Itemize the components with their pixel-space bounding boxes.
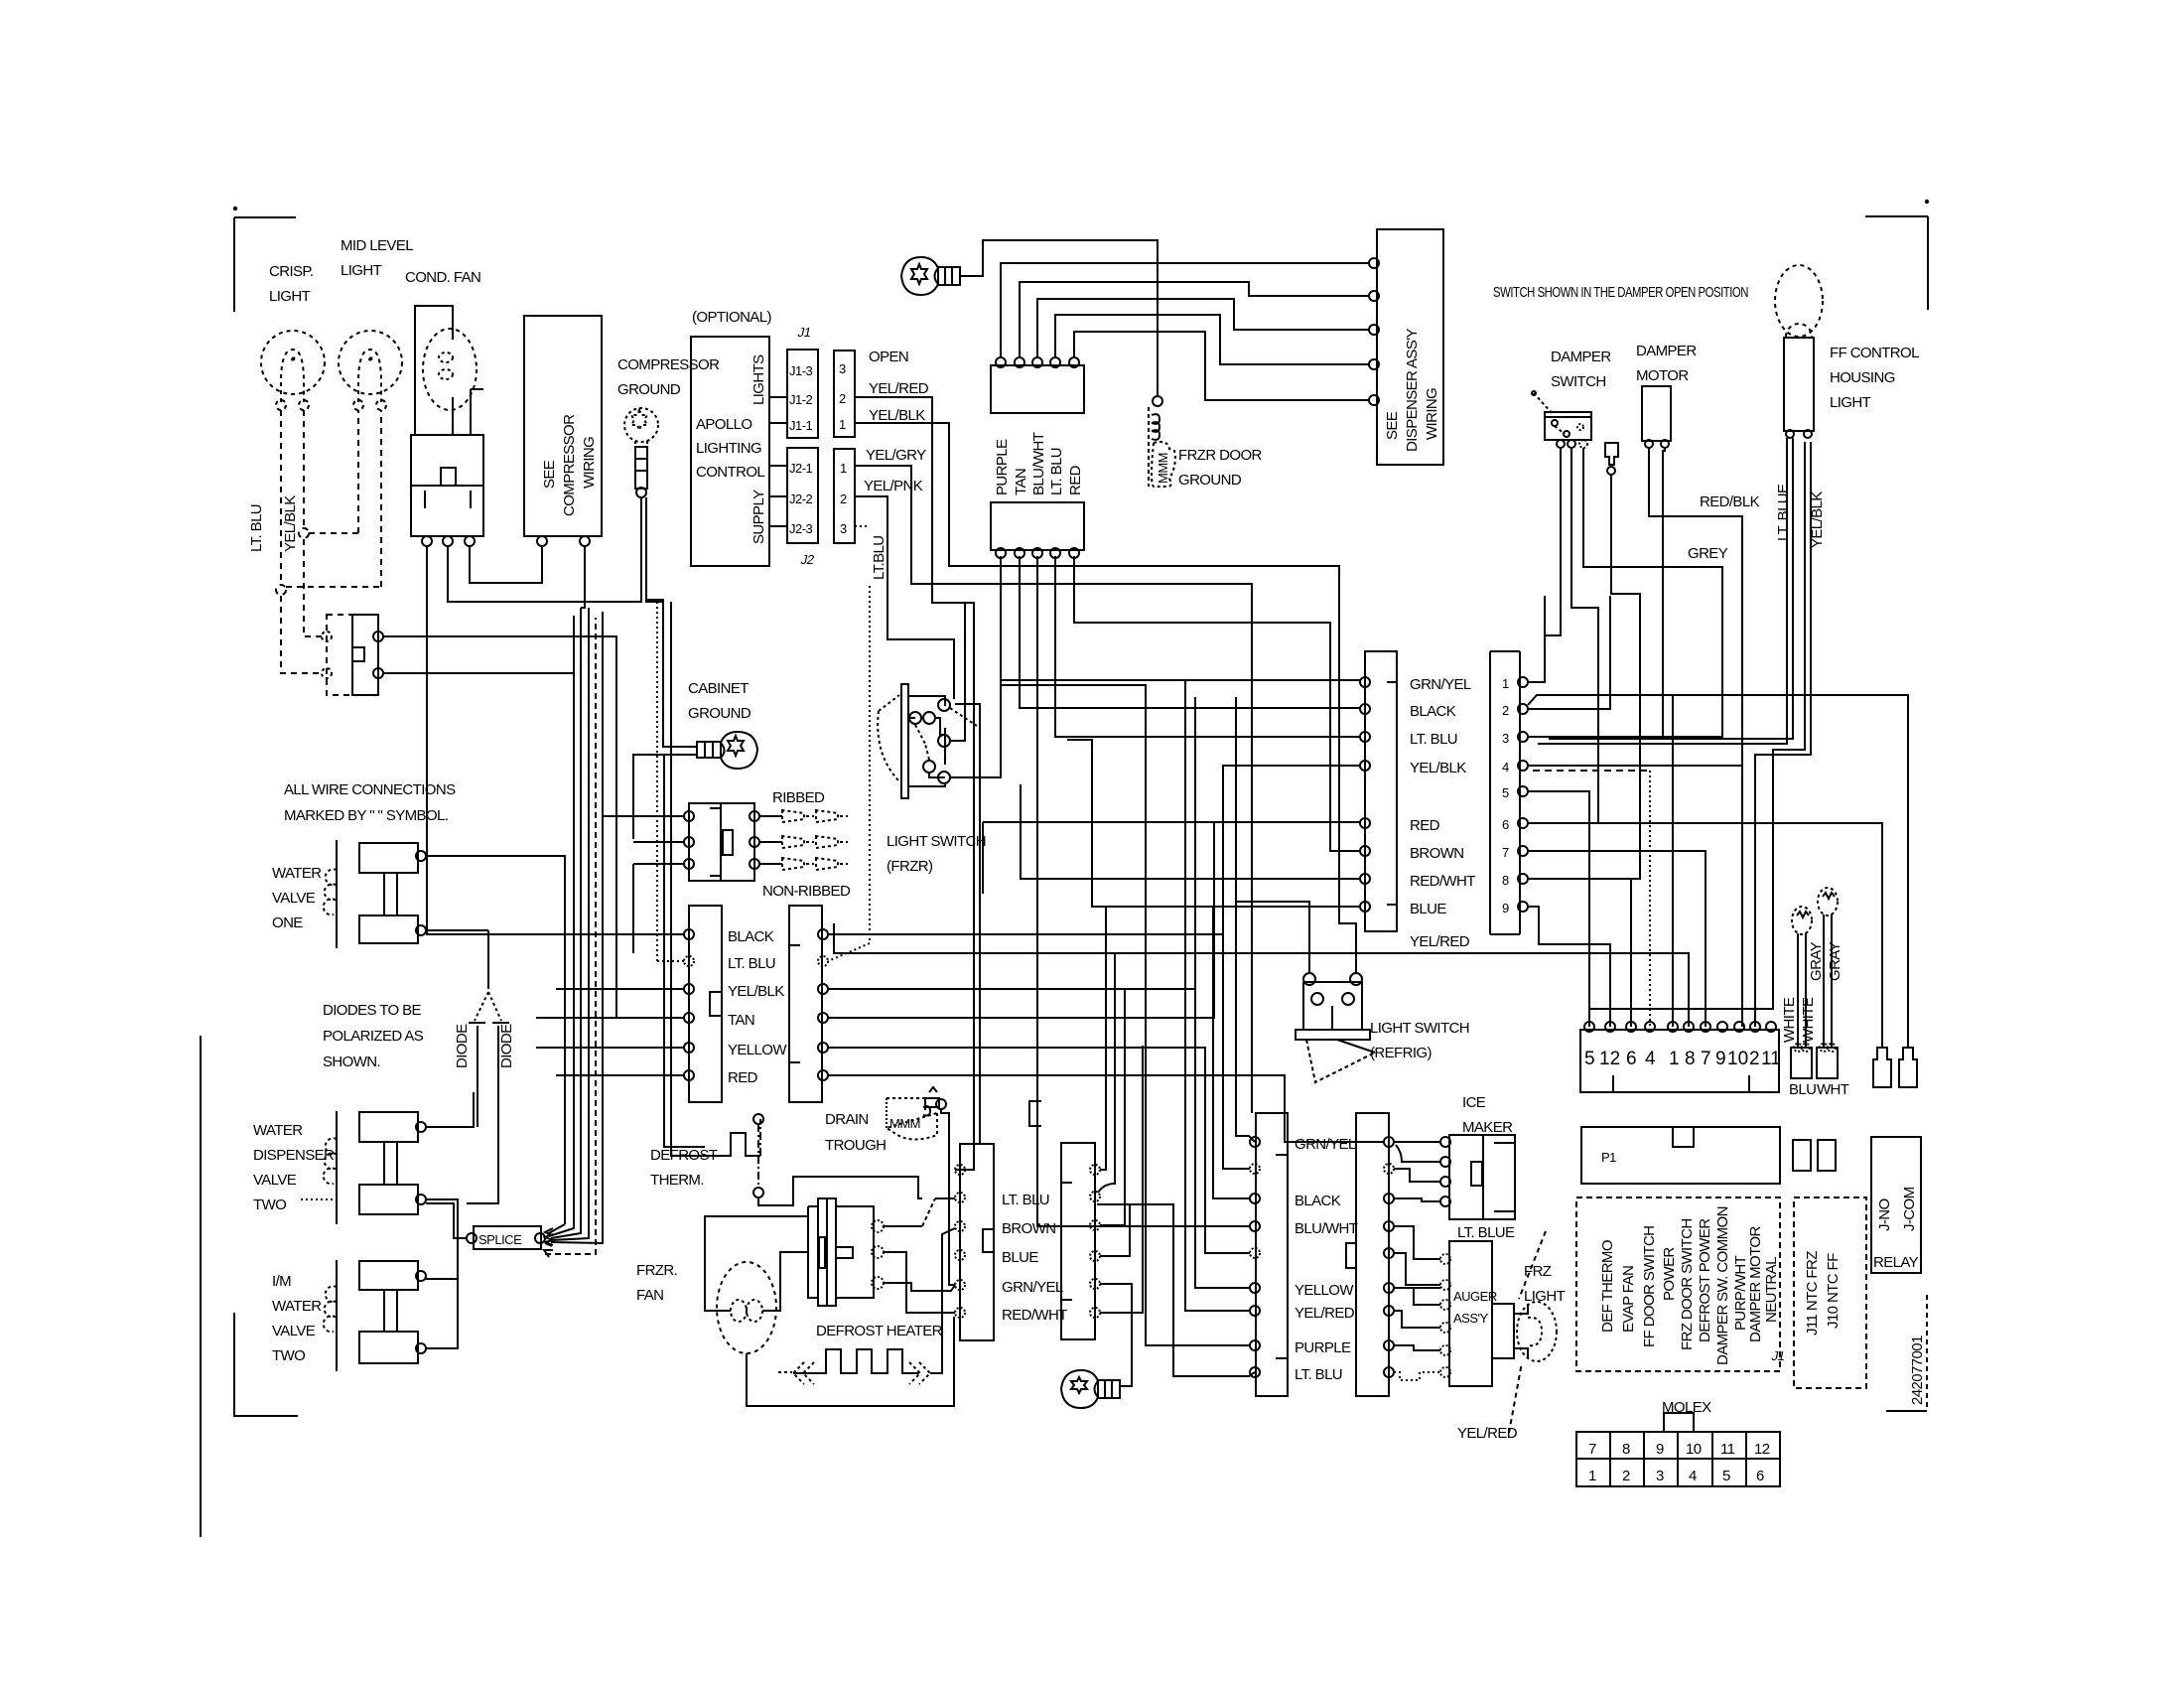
J1 mating connector 3 2 1 [834,351,855,437]
wire apollo to J2 [769,466,787,526]
svg-text:YEL/BLK: YEL/BLK [869,407,925,424]
svg-text:MMM: MMM [1156,453,1170,484]
svg-text:8: 8 [1622,1441,1630,1458]
svg-text:RED: RED [1067,465,1084,495]
thermistor white/white [1791,907,1812,1078]
wire 5pin red to brown [1074,556,1360,851]
wire dispenser 2 [1020,282,1369,357]
svg-text:DAMPER: DAMPER [1636,343,1697,359]
mid level light label [341,237,413,279]
svg-text:3: 3 [839,361,846,376]
J2 connector [787,448,818,543]
svg-text:CONTROL: CONTROL [696,464,764,481]
auger assy box [1440,1241,1497,1386]
9 pin connector strip [1490,651,1528,934]
ice maker label [1462,1094,1513,1136]
svg-text:MID LEVEL: MID LEVEL [341,237,413,254]
svg-text:J1-1: J1-1 [789,418,813,433]
wire 9pin 9 [1528,907,1610,1027]
I/M water valve two label [272,1273,322,1364]
damper switch [1532,391,1591,448]
svg-text:FAN: FAN [636,1287,663,1304]
svg-text:5: 5 [1584,1049,1595,1069]
svg-text:9: 9 [1502,901,1509,915]
svg-text:BLACK: BLACK [1295,1193,1341,1209]
svg-text:DEFROST POWER: DEFROST POWER [1697,1218,1713,1342]
light relay box [322,615,383,695]
svg-text:2: 2 [840,492,847,506]
svg-text:TAN: TAN [728,1012,754,1029]
svg-text:3: 3 [840,521,847,536]
svg-text:ONE: ONE [272,914,303,931]
svg-text:DAMPER SW. COMMON: DAMPER SW. COMMON [1714,1206,1731,1365]
ground lug bottom middle [1061,1370,1120,1408]
svg-text:OPEN: OPEN [869,349,908,365]
svg-text:DRAIN: DRAIN [825,1111,869,1128]
svg-text:LIGHTING: LIGHTING [696,440,761,457]
svg-text:(REFRIG): (REFRIG) [1370,1045,1432,1061]
svg-text:YEL/BLK: YEL/BLK [1410,760,1466,776]
svg-text:BROWN: BROWN [1410,845,1464,862]
wire J2-3 dotted lt.blu [855,525,870,527]
svg-text:LIGHT SWITCH: LIGHT SWITCH [1370,1020,1469,1037]
wire 5pin blu/wht down to bottom connector [1037,556,1250,1226]
svg-text:J1-2: J1-2 [789,392,813,407]
svg-text:HOUSING: HOUSING [1830,369,1895,386]
defrost therm label [650,1147,718,1189]
wire blue row [1092,864,1360,907]
svg-text:5: 5 [1722,1468,1730,1484]
frzr fan label [636,1262,677,1304]
svg-text:GRAY: GRAY [1827,941,1843,981]
damper switch label [1551,349,1611,390]
svg-text:ICE: ICE [1462,1094,1486,1111]
svg-text:1: 1 [1502,676,1509,691]
svg-text:DAMPER MOTOR: DAMPER MOTOR [1747,1226,1764,1342]
svg-text:DAMPER: DAMPER [1551,349,1611,365]
svg-text:COMPRESSOR: COMPRESSOR [617,356,720,373]
frz light label [1524,1263,1566,1305]
svg-text:LT. BLU: LT. BLU [1295,1366,1342,1383]
wire dispenser 5 [1074,332,1369,400]
wire 9pin 3 [1528,596,1663,737]
ff control housing light label [1830,345,1919,411]
svg-text:YEL/RED: YEL/RED [1410,933,1470,950]
svg-text:2: 2 [1502,703,1509,718]
left connector strip pair: left strip [684,906,722,1102]
svg-text:BLUE: BLUE [1410,901,1446,917]
wire yel/gry from J2 [855,466,1252,1113]
wire water valve one upper [426,856,565,1224]
light switch FRZR [878,684,977,798]
wire frzr fan left over top [705,1216,808,1311]
svg-text:APOLLO: APOLLO [696,416,751,433]
wire light switch pin2 up [950,602,965,741]
wire LT. BLU dashed from crisp light [276,410,381,673]
damper motor label [1636,343,1697,384]
svg-text:7: 7 [1588,1441,1596,1458]
svg-text:J2-2: J2-2 [789,492,813,506]
wire 9pin 4b dashed [1533,770,1650,772]
svg-text:COND. FAN: COND. FAN [405,269,480,286]
light switch refrig [1296,973,1375,1082]
mid level light bulb [339,331,402,410]
svg-text:4: 4 [1645,1049,1656,1069]
molex connector table [1576,1413,1780,1486]
svg-text:3: 3 [1656,1468,1664,1484]
labels blu wht [1789,1081,1849,1098]
J2 mating connector 1 2 3 [834,449,855,543]
wire right strip pin5 [828,1048,1250,1253]
dotted lt.blu joins right strip [828,586,870,961]
ice maker box [1440,1135,1515,1219]
wire y745 secondary [1067,740,1092,864]
dispenser connector lower [991,502,1084,558]
wire nuts right of ribbed connector [759,810,848,870]
wire right strip pin3 [828,988,1195,990]
border corner mark top-right [1865,201,1928,310]
svg-text:6: 6 [1756,1468,1764,1484]
svg-text:GROUND: GROUND [617,381,681,398]
wire damper motor T2 to 9pin3 [1528,448,1665,737]
wire into ribbed pin2 [633,841,684,843]
ff control housing light [1775,265,1823,438]
svg-text:WATER: WATER [272,1298,322,1315]
bottom left tall connector [1250,1113,1288,1396]
wire yel/red long [1271,953,1689,1027]
wire dispenser valve lower to IM valve [426,1199,458,1348]
svg-text:GREY: GREY [1688,545,1728,562]
svg-text:BLU/WHT: BLU/WHT [1295,1220,1358,1237]
defrost heater element [778,1228,955,1384]
svg-text:LIGHT: LIGHT [341,262,382,279]
svg-text:YEL/GRY: YEL/GRY [866,447,926,464]
svg-text:J10 NTC FF: J10 NTC FF [1825,1253,1842,1329]
wire damper motor RED/BLK to 9pin4 [1533,448,1742,1027]
svg-text:RELAY: RELAY [1873,1254,1919,1271]
svg-text:7: 7 [1701,1049,1711,1069]
svg-text:GROUND: GROUND [1178,472,1242,489]
wire YEL/BLK dashed from crisp light [299,410,358,636]
svg-text:7: 7 [1502,845,1509,860]
wire water valve one lower to diode [426,929,488,931]
svg-text:1: 1 [1588,1468,1596,1484]
svg-text:GROUND: GROUND [688,705,751,722]
svg-text:SEE: SEE [541,460,558,489]
labels gray gray [1808,941,1843,981]
wire 9pin7 up-left [1528,850,1631,852]
svg-text:WATER: WATER [253,1122,303,1139]
svg-text:LT. BLU: LT. BLU [248,504,265,552]
svg-text:MOTOR: MOTOR [1636,367,1689,384]
crisp light label [269,263,313,305]
bracket mark [1029,1101,1041,1126]
svg-text:BLU: BLU [1789,1081,1816,1098]
svg-text:RED/WHT: RED/WHT [1410,873,1475,890]
cond fan motor [415,306,483,435]
wire yel/blk from J1 [855,423,1356,973]
svg-text:LT. BLU: LT. BLU [1048,448,1065,495]
svg-text:5: 5 [1502,785,1509,800]
wire drain trough down to grn/yel [941,1109,955,1285]
P1 box [1581,1127,1780,1184]
wire frzr fan right to motor box [762,1252,808,1311]
svg-text:10: 10 [1727,1049,1748,1069]
svg-text:NON-RIBBED: NON-RIBBED [762,883,851,900]
wire from top lug to frzr door ground [960,240,1158,395]
svg-text:LIGHT SWITCH: LIGHT SWITCH [887,833,986,850]
svg-text:2: 2 [1749,1049,1760,1069]
border left edge line [200,1036,202,1537]
wire yel/pnk from J2 [855,496,954,699]
svg-text:LIGHTS: LIGHTS [751,354,767,405]
svg-text:1: 1 [840,461,847,476]
svg-text:SWITCH SHOWN IN THE DAMPER OPE: SWITCH SHOWN IN THE DAMPER OPEN POSITION [1493,284,1748,301]
labels lt.blu brown blue grn/yel red/wht [1002,1192,1067,1324]
svg-text:8: 8 [1685,1049,1696,1069]
note text all wire connections [284,781,456,824]
relay box [1871,1137,1921,1273]
wire right strip pin1 to yel/blk [828,766,1360,1169]
svg-text:DISPENSER ASS'Y: DISPENSER ASS'Y [1404,328,1421,452]
wire 9pin 1 [1528,596,1545,682]
ground lug top (lead to frzr door ground) [901,257,960,295]
svg-text:(FRZR): (FRZR) [887,858,933,875]
wire right strip pin4 [828,822,1214,1018]
svg-text:DISPENSER: DISPENSER [253,1147,335,1164]
svg-text:RIBBED: RIBBED [772,789,825,806]
svg-text:FRZR.: FRZR. [636,1262,677,1279]
svg-text:RED: RED [728,1069,758,1086]
svg-text:NEUTRAL: NEUTRAL [1763,1257,1780,1323]
svg-text:FF DOOR SWITCH: FF DOOR SWITCH [1641,1226,1658,1347]
svg-text:YEL/RED: YEL/RED [1457,1425,1518,1442]
svg-text:SPLICE: SPLICE [478,1232,522,1247]
svg-text:BLU/WHT: BLU/WHT [1030,432,1047,495]
svg-text:CABINET: CABINET [688,680,749,697]
svg-text:COMPRESSOR: COMPRESSOR [561,414,578,516]
wire cabinet ground [645,600,697,747]
svg-text:CRISP.: CRISP. [269,263,313,280]
crisp light bulb [261,331,325,410]
wire damper switch GREY to 9pin3 [1533,448,1722,737]
svg-text:9: 9 [1656,1441,1664,1458]
svg-text:LT. BLU: LT. BLU [728,955,775,972]
svg-text:10: 10 [1686,1441,1702,1458]
wires middle connector to auger [1394,1226,1440,1259]
svg-text:WHITE: WHITE [1800,997,1817,1043]
svg-text:J1-3: J1-3 [789,363,813,378]
compressor ground label [617,356,720,398]
svg-text:YEL/BLK: YEL/BLK [728,983,784,1000]
bundle verticals to bottom connector [1236,697,1255,1142]
defrost therm wire to motor [758,1177,922,1205]
wire into ribbed pin1 [615,815,684,817]
svg-text:I/M: I/M [272,1273,291,1290]
svg-text:GRN/YEL: GRN/YEL [1410,676,1471,693]
wire 9pin 8 [1528,879,1631,1027]
plug j-com [1899,1048,1917,1087]
center connector strip grn/yel..blue [1360,651,1397,931]
wire ff light LT.BLUE down [1538,438,1787,744]
wire damper switch pin2 down [1533,448,1598,823]
svg-text:TAN: TAN [1013,469,1029,495]
wire fan T3 to compressor box [470,546,542,583]
svg-text:WIRING: WIRING [1424,388,1440,440]
frz light bulb [1492,1231,1557,1433]
wire motor T2 [884,1252,955,1313]
wire relay top to tan [383,636,684,1018]
svg-text:(OPTIONAL): (OPTIONAL) [692,309,771,326]
svg-text:GRN/YEL: GRN/YEL [1295,1136,1356,1153]
wire into ribbed pin3 [633,864,684,953]
wires into left strip [556,933,684,935]
drain trough label [825,1111,886,1154]
svg-text:VALVE: VALVE [272,1323,316,1339]
label light switch refrig [1370,1020,1469,1061]
svg-text:WHITE: WHITE [1781,997,1798,1043]
wire motor T3 [884,1283,955,1291]
svg-text:EVAP FAN: EVAP FAN [1620,1266,1637,1333]
svg-text:BROWN: BROWN [1002,1220,1056,1237]
svg-text:4: 4 [1502,760,1509,774]
svg-text:P1: P1 [1601,1150,1616,1165]
svg-text:AUGER: AUGER [1453,1289,1497,1304]
svg-text:BLACK: BLACK [728,928,774,945]
svg-text:6: 6 [1626,1049,1637,1069]
svg-text:FRZ DOOR SWITCH: FRZ DOOR SWITCH [1679,1218,1696,1350]
svg-text:2: 2 [1622,1468,1630,1484]
svg-text:J11 NTC FRZ: J11 NTC FRZ [1804,1251,1821,1336]
labels grn/yel black blu/wht yellow yel/red purple lt. blu [1295,1136,1358,1383]
wire x987 vertical [955,704,980,1144]
left connector strip pair: right strip [789,906,828,1102]
svg-text:12: 12 [1754,1441,1770,1458]
svg-text:12: 12 [1599,1049,1620,1069]
svg-text:J-NO: J-NO [1876,1198,1893,1231]
svg-text:LT.BLU: LT.BLU [871,536,887,580]
svg-text:FRZR DOOR: FRZR DOOR [1178,447,1263,464]
wire damper switch pin1 down to 9pin1 [1528,448,1561,682]
svg-text:YEL/RED: YEL/RED [1295,1305,1355,1322]
svg-text:ALL WIRE CONNECTIONS: ALL WIRE CONNECTIONS [284,781,456,798]
labels white white [1781,997,1817,1043]
svg-text:11: 11 [1761,1049,1781,1069]
wire 5pin tan to black [1020,556,1360,708]
cabinet ground label [688,680,751,722]
svg-text:YEL/RED: YEL/RED [869,380,929,397]
cond fan connector [411,435,483,546]
bottom mid connector right strip [1061,1143,1100,1339]
svg-text:6: 6 [1502,817,1509,832]
wires right strip up into bundle [1100,907,1106,1170]
damper plug [1605,443,1618,475]
water dispenser valve two [301,1111,426,1224]
svg-text:4: 4 [1689,1468,1697,1484]
thermistor gray/gray [1817,888,1838,1078]
splice box [467,1226,545,1249]
svg-text:RED/BLK: RED/BLK [1700,493,1760,510]
wire apollo to J1 [769,397,787,423]
svg-text:YELLOW: YELLOW [728,1042,787,1058]
label frzr door ground [1178,447,1263,489]
svg-text:DIODE: DIODE [454,1024,471,1068]
wire frzr fan bottom rail [747,1318,955,1406]
I/M water valve two [324,1260,426,1371]
wire dispenser 3 [1037,299,1369,357]
diode left [467,930,509,1203]
wire compressor box T2 down [581,546,585,608]
svg-text:DEFROST HEATER: DEFROST HEATER [816,1323,943,1339]
svg-text:FF CONTROL: FF CONTROL [1830,345,1919,361]
svg-text:LT. BLUE: LT. BLUE [1775,484,1792,541]
svg-text:GRN/YEL: GRN/YEL [1002,1279,1063,1296]
labels black lt.blu yel/blk tan yellow red [728,928,787,1086]
svg-text:YELLOW: YELLOW [1295,1282,1354,1299]
labels purple tan blu/wht lt.blu red [994,432,1084,495]
svg-text:LIGHT: LIGHT [1830,394,1871,411]
svg-text:MMM: MMM [889,1116,920,1131]
wire 5pin lt.blu to strip [1055,556,1360,737]
damper motor [1642,386,1671,448]
svg-text:J2-3: J2-3 [789,521,813,536]
wire 9pin 7 [1528,851,1706,1027]
svg-text:SUPPLY: SUPPLY [751,490,767,544]
wire 9pin 4 [1528,596,1742,766]
svg-text:242077001: 242077001 [1909,1336,1926,1405]
svg-text:BLUE: BLUE [1002,1249,1038,1266]
wire yel/red long row [834,923,1689,953]
svg-text:POWER: POWER [1661,1247,1678,1301]
svg-text:PURPLE: PURPLE [994,439,1011,495]
svg-text:DIODES TO BE: DIODES TO BE [323,1002,422,1019]
wire motor T1 to connector [884,1198,955,1226]
wire right strip pin6 [828,1075,1384,1142]
svg-text:VALVE: VALVE [272,890,316,907]
svg-text:YEL/BLK: YEL/BLK [282,495,299,552]
svg-text:BLACK: BLACK [1410,703,1456,720]
svg-text:SHOWN.: SHOWN. [323,1054,380,1070]
svg-text:WHT: WHT [1817,1081,1849,1098]
svg-text:DIODE: DIODE [498,1024,515,1068]
label light switch frzr [887,833,986,875]
drain trough heater symbol [887,1087,946,1140]
control board dashed label box [1576,1197,1786,1371]
wire red/wht row [1021,784,1360,879]
compressor ground lug [624,408,658,447]
bundle verticals right [664,755,705,1147]
border corner mark bottom-left [234,1313,298,1416]
frzr fan motor [717,1262,776,1353]
svg-text:WATER: WATER [272,865,322,882]
wire red row [983,822,1360,894]
svg-text:1: 1 [839,417,846,432]
wire 9pin 2b long right [1528,695,1908,1048]
svg-text:RED: RED [1410,817,1440,834]
svg-text:THERM.: THERM. [650,1172,704,1189]
wire ground lug bottom to right strip pin5 [1100,1284,1132,1386]
dispenser connector upper [991,357,1084,413]
svg-text:TROUGH: TROUGH [825,1137,886,1154]
wires middle connector to ice maker [1394,1141,1440,1143]
see compressor wiring box [524,316,602,546]
wire dispenser 1 [1001,263,1369,357]
svg-text:SEE: SEE [1384,411,1401,440]
wire light switch pin3 to grn/yel [950,680,1360,777]
border corner mark top-left [234,208,296,312]
note text diodes [323,1002,424,1070]
bottom mid tall connector [1346,1113,1394,1396]
